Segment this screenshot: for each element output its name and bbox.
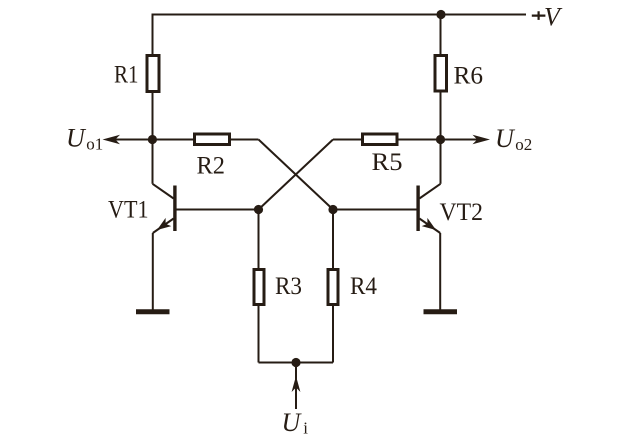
wire VT2 emitter to ground [439, 233, 441, 310]
transistor VT2 emitter lead [419, 219, 440, 234]
wire R5 to node Uo2 [397, 139, 441, 141]
resistor R4 body [328, 270, 338, 305]
wire R5 left stub [333, 139, 363, 141]
wire diagonal R2 to VT2 base node [259, 140, 334, 210]
node dot Uo2 [436, 135, 445, 144]
svg-text:R5: R5 [372, 149, 403, 176]
wire left branch R1 to collector [152, 92, 154, 184]
svg-text:Ui: Ui [282, 408, 309, 438]
wire right branch R6 to collector [440, 92, 442, 184]
wire VT1 emitter to ground [152, 233, 154, 310]
wire node to R3 [258, 210, 260, 270]
arrowhead VT2 emitter [422, 218, 436, 230]
svg-text:Uo1: Uo1 [66, 124, 103, 154]
transistor VT1 base bar [173, 186, 176, 232]
arrowhead VT1 emitter [157, 218, 171, 230]
svg-text:R2: R2 [197, 153, 226, 180]
wire bottom rail [259, 362, 334, 364]
resistor R5 body [363, 134, 398, 145]
resistor R2 body [195, 134, 230, 145]
wire R3 to bottom rail [258, 305, 260, 363]
node dot +V rail [436, 10, 445, 19]
arrowhead Ui (up) [292, 376, 301, 392]
wire node Uo1 to R2 [152, 139, 194, 141]
transistor VT1 emitter lead [153, 219, 174, 234]
svg-text:V: V [544, 3, 563, 32]
wire right branch top [440, 15, 442, 57]
node dot VT2 base / R4 top [328, 205, 337, 214]
wire top rail [153, 15, 527, 57]
transistor VT2 base bar [416, 186, 419, 232]
label +V plus sign [532, 11, 546, 20]
arrowhead Uo2 (right) [473, 135, 491, 144]
node dot Uo1 [148, 135, 157, 144]
wire Uo1 output line [110, 139, 152, 141]
wire Ui input line [295, 363, 297, 410]
wire Uo2 output line [441, 139, 483, 141]
resistor R3 body [254, 270, 264, 305]
ground symbol right [424, 309, 458, 314]
resistor R6 body [435, 56, 447, 92]
wire node to R4 [332, 210, 334, 270]
transistor VT2 base wire [333, 209, 417, 211]
transistor VT1 collector lead [153, 184, 174, 199]
wire R2 right stub [231, 139, 259, 141]
node dot VT1 base / R3 top [254, 205, 263, 214]
svg-text:R4: R4 [350, 273, 377, 300]
svg-text:VT1: VT1 [108, 197, 149, 224]
transistor VT2 collector lead [419, 184, 440, 199]
svg-text:R3: R3 [275, 273, 302, 300]
wire diagonal R5 to VT1 base node [259, 140, 334, 210]
transistor VT1 base wire [176, 209, 259, 211]
node dot Ui junction [291, 358, 300, 367]
resistor R1 body [147, 56, 159, 92]
svg-text:VT2: VT2 [440, 199, 484, 226]
wire R4 to bottom rail [332, 305, 334, 363]
svg-text:R1: R1 [114, 62, 139, 89]
ground symbol left [136, 309, 170, 314]
svg-text:R6: R6 [454, 63, 484, 90]
svg-text:Uo2: Uo2 [495, 124, 532, 154]
arrowhead Uo1 (left) [103, 135, 121, 144]
